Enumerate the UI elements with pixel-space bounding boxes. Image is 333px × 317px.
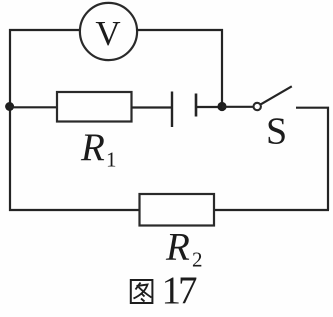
wire: bottom left horizontal <box>9 209 140 211</box>
svg-text:R: R <box>165 226 190 269</box>
wire: left vertical side <box>9 29 11 211</box>
node A (left junction) <box>5 102 14 111</box>
svg-text:17: 17 <box>162 269 198 312</box>
wire: bottom right horizontal <box>214 209 329 211</box>
svg-text:1: 1 <box>106 148 117 172</box>
wire: right vertical drop to node B <box>221 29 223 106</box>
switch S lever <box>261 86 292 104</box>
node B (right junction) <box>217 102 226 111</box>
resistor R1 <box>57 92 132 122</box>
wire: node A to resistor R1 <box>9 106 58 108</box>
switch S pivot <box>254 103 261 110</box>
wire: node B to switch pivot <box>222 106 253 108</box>
svg-text:2: 2 <box>192 248 203 272</box>
svg-text:S: S <box>266 111 287 153</box>
wire: switch to right corner <box>296 108 328 210</box>
svg-text:R: R <box>80 126 105 169</box>
svg-text:V: V <box>95 14 120 53</box>
resistor R2 <box>140 194 215 226</box>
wire: top right horizontal <box>136 29 223 31</box>
caption glyph 图 (hand-drawn box) <box>131 280 153 303</box>
wire: top left horizontal <box>9 29 81 31</box>
battery cell (long plate) <box>171 92 173 128</box>
wire: battery to node B <box>197 106 222 108</box>
battery cell (short plate) <box>195 94 198 117</box>
wire: R1 to battery <box>132 106 172 108</box>
voltmeter U1 <box>80 3 137 60</box>
